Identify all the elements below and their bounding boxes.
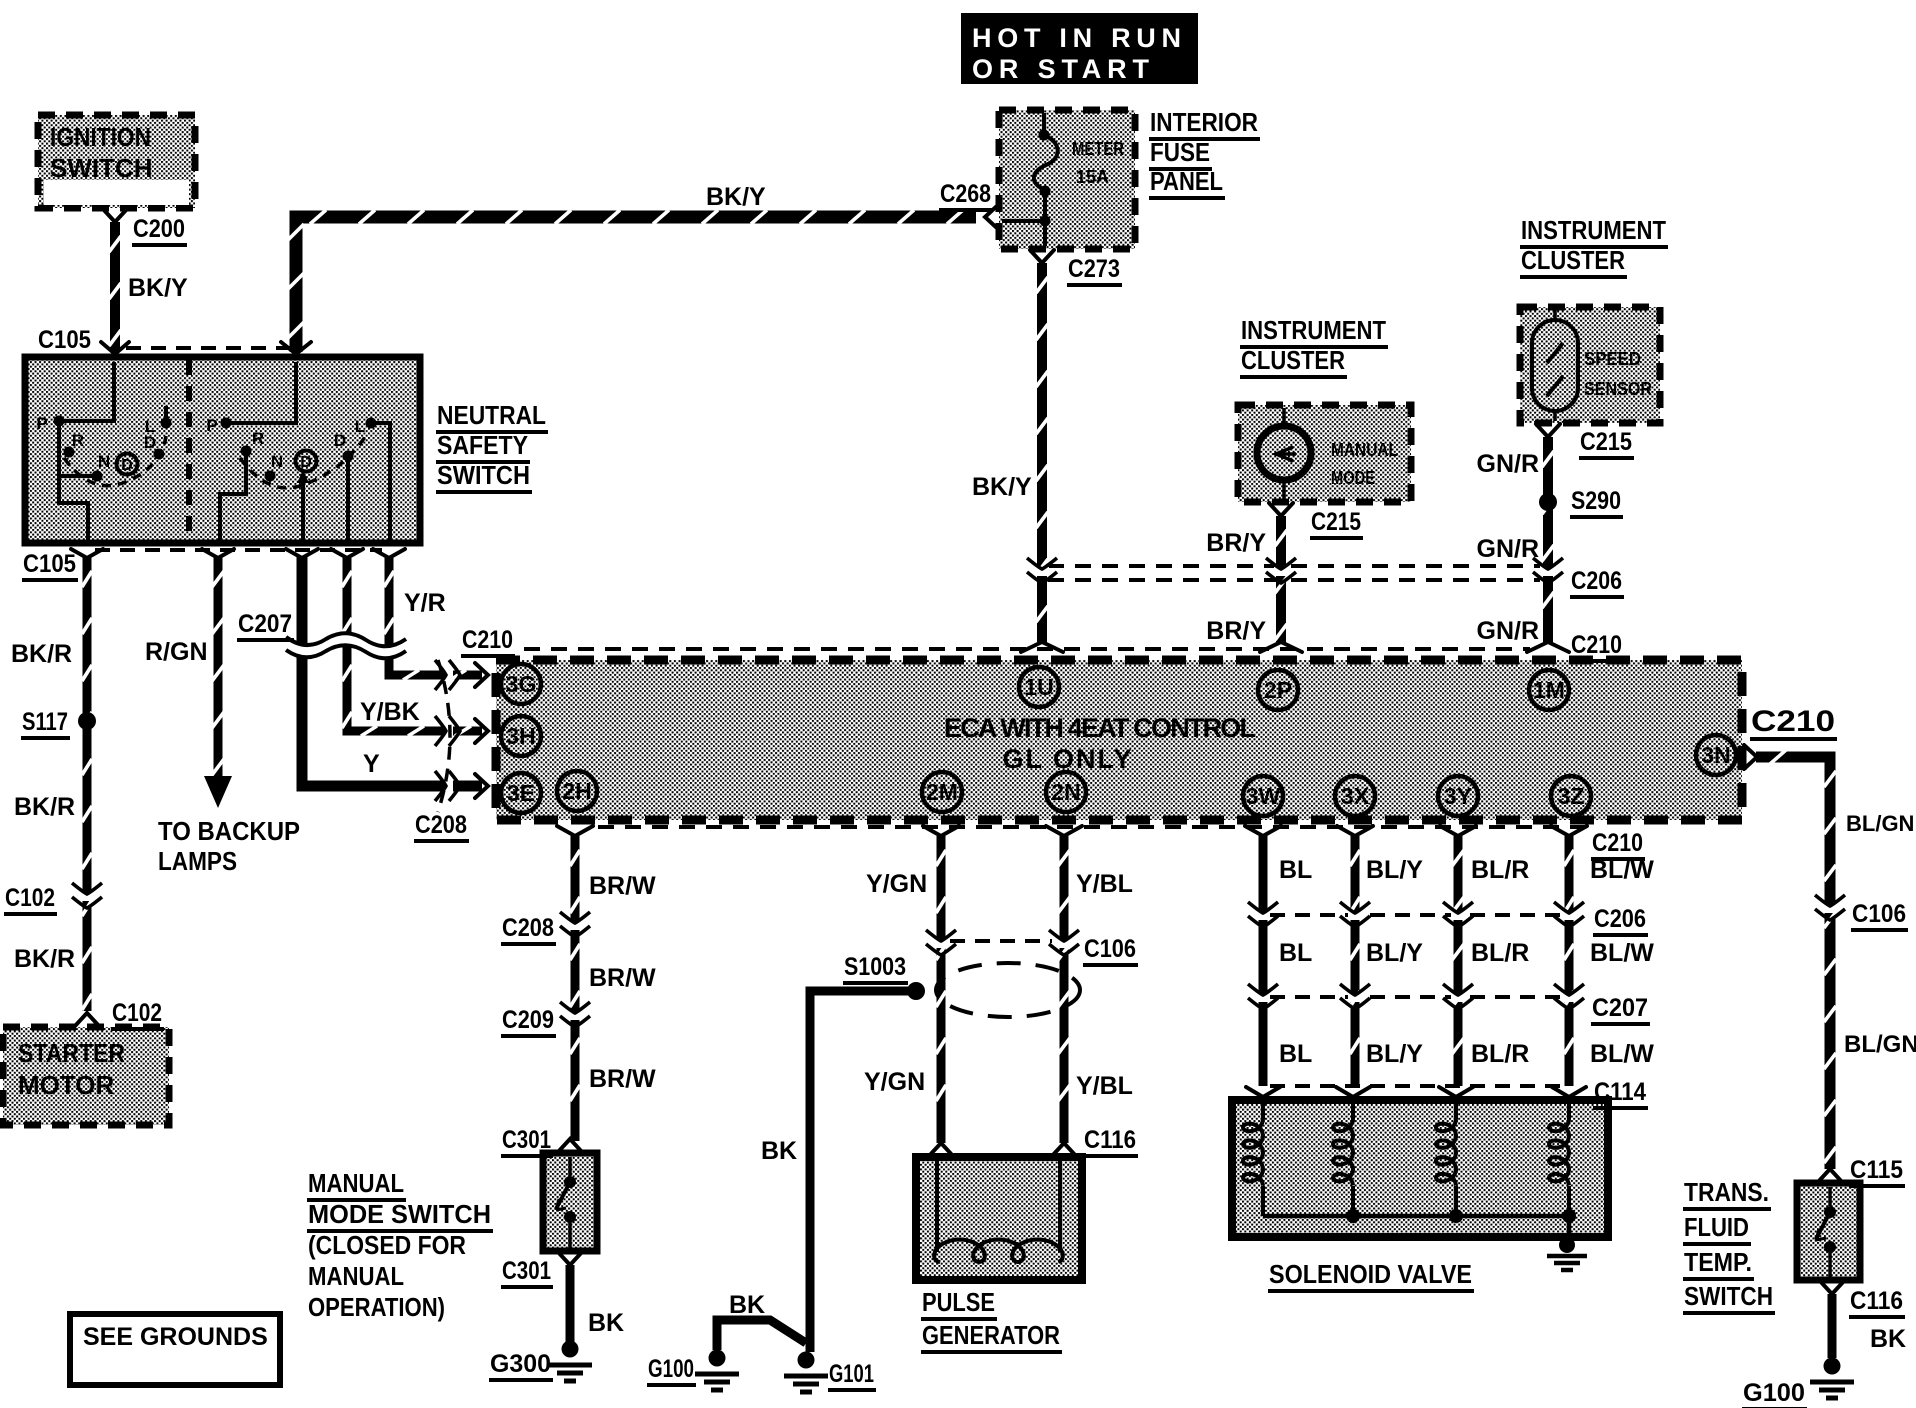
label GN/R 3 <box>1477 617 1540 645</box>
label C210 right top <box>1750 705 1837 739</box>
break C206 on BL/W <box>1562 911 1576 920</box>
break C206 on BL/R <box>1451 911 1465 920</box>
label C208 brw <box>501 914 556 944</box>
label BK manual switch <box>588 1309 624 1337</box>
svg-text:IGNITION: IGNITION <box>50 122 151 152</box>
label C215 right <box>1579 428 1634 458</box>
svg-text:PULSE: PULSE <box>922 1287 995 1317</box>
connector solenoid top <box>1336 1087 1370 1097</box>
label S117 <box>21 708 70 738</box>
svg-text:C273: C273 <box>1068 255 1120 283</box>
ECA with 4EAT control module <box>496 660 1742 820</box>
svg-text:BK: BK <box>761 1137 797 1165</box>
label BR/W 1 <box>589 872 656 900</box>
label CLUSTER left <box>1240 345 1347 377</box>
svg-text:BR/W: BR/W <box>589 1065 656 1093</box>
interior fuse panel <box>999 110 1135 249</box>
svg-text:C102: C102 <box>5 884 55 912</box>
svg-text:C207: C207 <box>238 610 292 638</box>
label MANUAL 2 <box>308 1261 404 1291</box>
svg-text:G101: G101 <box>829 1360 874 1388</box>
svg-text:C210: C210 <box>462 626 513 654</box>
connector C273 <box>1030 250 1054 263</box>
connector NSS bottom pin <box>71 549 103 558</box>
svg-text:P: P <box>206 416 217 435</box>
svg-text:INSTRUMENT: INSTRUMENT <box>1521 215 1666 245</box>
label BL/R r2 <box>1471 1040 1529 1068</box>
label BK/Y 2 <box>706 183 766 211</box>
connector solenoid top <box>1246 1087 1280 1097</box>
connector ECA bottom <box>1245 826 1281 836</box>
break C207 on BL/Y <box>1348 993 1362 1002</box>
label C207 left <box>237 610 294 640</box>
wire BK/Y NSS to fuse panel <box>288 210 976 352</box>
connector ECA left 3H <box>475 719 488 743</box>
ignition switch box <box>38 115 195 208</box>
label SOLENOID VALVE <box>1268 1259 1474 1291</box>
wire BK manual mode switch to ground G300 <box>566 1265 575 1342</box>
connector C215 speed sensor <box>1536 424 1560 437</box>
svg-text:3Z: 3Z <box>1558 783 1585 809</box>
svg-text:BL/W: BL/W <box>1590 1040 1654 1068</box>
label C206 sol <box>1593 905 1648 935</box>
svg-text:HOT IN RUN: HOT IN RUN <box>972 23 1181 53</box>
label C210 under GN/R <box>1570 631 1624 661</box>
break on Y at ECA <box>444 779 453 793</box>
ground G300 <box>562 1341 579 1358</box>
svg-text:C105: C105 <box>23 550 76 578</box>
svg-text:SWITCH: SWITCH <box>50 153 153 183</box>
svg-text:FUSE: FUSE <box>1150 137 1210 167</box>
connector NSS top left <box>101 342 129 354</box>
svg-text:C207: C207 <box>1592 994 1648 1022</box>
label INTERIOR <box>1149 107 1260 139</box>
connector C200 <box>103 209 127 222</box>
label LAMPS <box>158 846 237 876</box>
label MODE SWITCH <box>307 1199 493 1231</box>
label BR/Y 2 <box>1206 617 1266 645</box>
break C207 on BL <box>1256 993 1270 1002</box>
svg-text:TRANS.: TRANS. <box>1684 1177 1769 1207</box>
connector C301 top <box>558 1139 582 1152</box>
ECA pin 1M <box>1529 670 1569 710</box>
wire Y NSS to ECA 3E <box>302 557 482 786</box>
ECA pin 3G <box>501 664 541 704</box>
svg-text:C208: C208 <box>415 811 467 839</box>
svg-text:D: D <box>121 457 133 474</box>
svg-text:BK/R: BK/R <box>14 945 75 973</box>
connector line C210 bottom row <box>598 825 1585 829</box>
connector line C206 double row <box>1048 564 1540 568</box>
svg-text:BL/Y: BL/Y <box>1366 1040 1423 1068</box>
svg-text:SWITCH: SWITCH <box>437 460 530 490</box>
label CLOSED FOR <box>308 1230 466 1260</box>
wire Y/BK NSS to ECA 3H <box>342 557 482 736</box>
backup lamps arrowhead <box>204 776 232 808</box>
svg-text:NEUTRAL: NEUTRAL <box>437 400 546 430</box>
label Y/GN 1 <box>866 870 927 898</box>
svg-text:C210: C210 <box>1571 631 1622 659</box>
label C102 upper <box>4 884 57 914</box>
svg-text:BR/Y: BR/Y <box>1206 617 1266 645</box>
connector ECA bottom <box>1440 826 1476 836</box>
break C209 on BR/W <box>568 1011 582 1020</box>
label INSTRUMENT right <box>1520 215 1668 247</box>
connector ECA top 1M <box>1527 642 1569 652</box>
label C106 mid <box>1083 935 1138 965</box>
connector ECA top 2P <box>1260 642 1302 652</box>
svg-text:MANUAL: MANUAL <box>308 1168 404 1198</box>
label BK/R 2 <box>14 793 75 821</box>
label G300 <box>489 1350 553 1380</box>
svg-text:GN/R: GN/R <box>1477 450 1540 478</box>
instrument cluster speed sensor <box>1520 307 1660 423</box>
svg-text:BL/GN: BL/GN <box>1844 1031 1916 1058</box>
svg-text:(CLOSED FOR: (CLOSED FOR <box>308 1230 466 1260</box>
manual mode switch <box>543 1153 597 1251</box>
svg-text:Y/BL: Y/BL <box>1076 1072 1133 1100</box>
connector ECA bottom <box>923 826 959 836</box>
ECA pin 2P <box>1258 670 1298 710</box>
label C106 right <box>1851 900 1908 930</box>
label TEMP. <box>1683 1247 1754 1279</box>
wire BL/GN ECA 3N to temp switch <box>1756 750 1836 1169</box>
wire BR/Y manual mode to ECA 2P <box>1275 516 1287 642</box>
svg-text:R: R <box>252 429 264 448</box>
connector ECA left 3G <box>475 663 488 687</box>
svg-text:C105: C105 <box>38 326 91 354</box>
solenoid valve <box>1232 1100 1608 1237</box>
connector arc at ECA left <box>438 660 450 812</box>
svg-text:BL: BL <box>1279 1040 1312 1068</box>
label Y <box>363 750 380 778</box>
svg-text:G300: G300 <box>490 1350 551 1378</box>
label BL/W r1 <box>1590 939 1654 967</box>
ECA pin 3Z <box>1551 776 1591 816</box>
label C114 sol <box>1593 1078 1648 1108</box>
label C115 <box>1849 1156 1905 1186</box>
svg-text:BL/GN: BL/GN <box>1846 811 1914 836</box>
svg-text:C206: C206 <box>1594 905 1646 933</box>
wire BK/Y ignition to NSS <box>109 222 121 352</box>
label Y/BL 1 <box>1076 870 1133 898</box>
connector ECA bottom <box>557 826 593 836</box>
label BL/Y r1 <box>1366 939 1423 967</box>
label BR/W 2 <box>589 964 656 992</box>
connector ECA bottom <box>1046 826 1082 836</box>
connector line C114 solenoid row <box>1270 1084 1562 1088</box>
label BK/R 1 <box>11 640 72 668</box>
break C206 on BL/Y <box>1348 911 1362 920</box>
splice S1003 <box>907 982 925 1000</box>
svg-text:SWITCH: SWITCH <box>1684 1281 1773 1311</box>
svg-text:SPEED: SPEED <box>1584 349 1641 369</box>
svg-text:BL/Y: BL/Y <box>1366 856 1423 884</box>
svg-text:C106: C106 <box>1852 900 1906 928</box>
svg-text:C208: C208 <box>502 914 554 942</box>
label MANUAL 1 <box>307 1168 406 1200</box>
svg-text:SOLENOID VALVE: SOLENOID VALVE <box>1269 1259 1472 1289</box>
svg-text:G100: G100 <box>1743 1379 1805 1407</box>
label G100 right <box>1742 1379 1807 1408</box>
svg-text:L: L <box>355 417 365 436</box>
svg-text:GENERATOR: GENERATOR <box>922 1320 1060 1350</box>
svg-text:GN/R: GN/R <box>1477 535 1540 563</box>
svg-text:BK: BK <box>729 1291 765 1319</box>
svg-text:3N: 3N <box>1701 742 1730 768</box>
svg-text:R/GN: R/GN <box>145 638 208 666</box>
svg-text:1M: 1M <box>1533 677 1565 703</box>
label Y/BL 2 <box>1076 1072 1133 1100</box>
label BK/Y 3 <box>972 473 1032 501</box>
svg-text:MANUAL: MANUAL <box>1331 440 1398 460</box>
break C102 on BK/R <box>80 892 94 901</box>
label BL/W r2 <box>1590 1040 1654 1068</box>
connector NSS bottom pin <box>202 549 234 558</box>
connector NSS bottom pin <box>286 549 318 558</box>
ECA pin 3H <box>501 716 541 756</box>
svg-text:S290: S290 <box>1571 487 1621 515</box>
ECA pin 3E <box>501 773 541 813</box>
svg-text:BK: BK <box>588 1309 624 1337</box>
label C105 top <box>37 326 93 356</box>
see grounds note box <box>70 1314 280 1385</box>
svg-text:2H: 2H <box>562 778 591 804</box>
label BL r2 <box>1279 1040 1312 1068</box>
svg-text:N: N <box>98 452 110 471</box>
break C206 on BK/Y <box>1035 567 1049 576</box>
label C209 brw <box>501 1006 556 1036</box>
connector line C206 solenoid row <box>1270 913 1562 917</box>
svg-text:R: R <box>72 431 84 450</box>
break C206 on BR/Y <box>1274 567 1288 576</box>
break C106 on Y/BL <box>1057 939 1071 948</box>
svg-text:STARTER: STARTER <box>18 1038 125 1068</box>
svg-text:GN/R: GN/R <box>1477 617 1540 645</box>
label C116 mid <box>1083 1126 1138 1156</box>
svg-text:BL/R: BL/R <box>1471 939 1529 967</box>
connector C215 manual mode <box>1269 503 1293 516</box>
solenoid ground <box>1559 1237 1575 1253</box>
shield around pulse generator wires <box>936 963 1080 1017</box>
connector starter motor <box>75 1013 99 1026</box>
svg-text:C268: C268 <box>940 180 991 208</box>
svg-text:2M: 2M <box>926 779 958 805</box>
label C273 <box>1067 255 1122 285</box>
wire BL/Y ECA 3X to solenoid valve <box>1350 836 1360 1086</box>
connector C268 <box>985 205 998 229</box>
label C206 row <box>1570 567 1624 597</box>
connector C301 bottom <box>558 1252 582 1265</box>
svg-text:D: D <box>300 454 312 471</box>
label TO BACKUP <box>158 816 300 846</box>
connector ECA top 1U <box>1021 642 1063 652</box>
label C301 upper <box>501 1126 553 1156</box>
svg-text:3G: 3G <box>506 671 537 697</box>
svg-text:C215: C215 <box>1311 508 1361 536</box>
wire BK/R NSS to starter motor <box>82 557 92 1011</box>
splice S117 <box>78 712 96 730</box>
connector solenoid top <box>1552 1087 1586 1097</box>
ECA pin 2H <box>557 771 597 811</box>
svg-text:SENSOR: SENSOR <box>1584 379 1652 399</box>
svg-text:C301: C301 <box>502 1126 551 1154</box>
label BL/W r0 <box>1590 856 1654 884</box>
label BK/Y 1 <box>128 274 188 302</box>
wire BL/W ECA 3Z to solenoid valve <box>1564 836 1574 1086</box>
connector line C210 top row <box>524 647 1530 651</box>
label BL/Y r0 <box>1366 856 1423 884</box>
label PANEL <box>1149 166 1225 198</box>
ECA pin 3Y <box>1438 776 1478 816</box>
ground G100 right <box>1824 1358 1841 1375</box>
label C200 <box>132 215 187 245</box>
svg-text:C114: C114 <box>1594 1078 1646 1106</box>
svg-text:3X: 3X <box>1341 783 1370 809</box>
label BK s1003 <box>761 1137 797 1165</box>
svg-text:BK/Y: BK/Y <box>972 473 1032 501</box>
connector NSS top right <box>281 342 311 354</box>
label GN/R 2 <box>1477 535 1540 563</box>
svg-text:C210: C210 <box>1751 705 1835 738</box>
svg-text:MOTOR: MOTOR <box>18 1070 115 1100</box>
label BL/Y r2 <box>1366 1040 1423 1068</box>
splice S290 <box>1539 493 1557 511</box>
svg-text:BL: BL <box>1279 856 1312 884</box>
connector ECA bottom <box>1337 826 1373 836</box>
svg-text:CLUSTER: CLUSTER <box>1241 345 1345 375</box>
label BL/GN 1 <box>1846 811 1914 836</box>
svg-text:Y/BL: Y/BL <box>1076 870 1133 898</box>
connector solenoid top <box>1439 1087 1473 1097</box>
svg-text:BL/Y: BL/Y <box>1366 939 1423 967</box>
label CLUSTER right <box>1520 245 1627 277</box>
svg-text:LAMPS: LAMPS <box>158 846 237 876</box>
break C206 on GN/R <box>1541 567 1555 576</box>
svg-text:MODE: MODE <box>1331 468 1375 488</box>
break C207 on BL/R <box>1451 993 1465 1002</box>
label NEUTRAL SAFETY SWITCH line1 <box>436 400 548 432</box>
svg-text:C200: C200 <box>133 215 185 243</box>
svg-text:D: D <box>334 431 346 450</box>
svg-text:METER: METER <box>1072 139 1124 159</box>
label S1003 <box>843 953 908 983</box>
label BL r0 <box>1279 856 1312 884</box>
ground G100 left <box>709 1350 726 1367</box>
svg-text:INSTRUMENT: INSTRUMENT <box>1241 315 1386 345</box>
label C105 bottom <box>22 550 78 580</box>
wire BL ECA 3W to solenoid valve <box>1259 836 1268 1086</box>
wire BR/W ECA 2H to manual mode switch <box>570 836 580 1141</box>
neutral safety switch <box>25 357 420 543</box>
break C207 on BL/W <box>1562 993 1576 1002</box>
label G100 left <box>647 1355 696 1385</box>
svg-text:2P: 2P <box>1264 677 1292 703</box>
svg-text:Y/R: Y/R <box>404 589 446 617</box>
svg-text:1U: 1U <box>1024 674 1053 700</box>
label PULSE <box>921 1287 997 1319</box>
wire Y/BL ECA 2N to pulse generator <box>1058 836 1070 1143</box>
label G101 <box>828 1360 876 1390</box>
svg-text:3W: 3W <box>1246 783 1281 809</box>
starter motor box <box>3 1027 169 1125</box>
svg-text:PANEL: PANEL <box>1150 166 1223 196</box>
label INSTRUMENT left <box>1240 315 1388 347</box>
connector line C105 top <box>126 346 290 350</box>
svg-text:BK/R: BK/R <box>14 793 75 821</box>
break C106 on Y/GN <box>934 939 948 948</box>
label BR/Y 1 <box>1206 529 1266 557</box>
label C268 <box>939 180 993 210</box>
svg-text:BK/Y: BK/Y <box>128 274 188 302</box>
label C116 right <box>1849 1287 1905 1317</box>
label BR/W 3 <box>589 1065 656 1093</box>
label FLUID <box>1683 1212 1751 1244</box>
label GN/R 1 <box>1477 450 1540 478</box>
ECA pin 1U <box>1019 667 1059 707</box>
svg-text:C206: C206 <box>1571 567 1622 595</box>
svg-text:C301: C301 <box>502 1257 551 1285</box>
svg-text:3E: 3E <box>507 780 535 806</box>
connector line C207 solenoid row <box>1270 995 1562 999</box>
svg-text:C209: C209 <box>502 1006 554 1034</box>
svg-text:C116: C116 <box>1084 1126 1136 1154</box>
svg-text:P: P <box>36 414 47 433</box>
svg-text:Y/BK: Y/BK <box>360 698 420 726</box>
svg-text:C215: C215 <box>1580 428 1632 456</box>
break C206 on BL <box>1256 911 1270 920</box>
svg-text:C102: C102 <box>112 999 162 1027</box>
wire BL/R ECA 3Y to solenoid valve <box>1452 836 1464 1086</box>
svg-text:C116: C116 <box>1850 1287 1903 1315</box>
svg-text:15A: 15A <box>1076 167 1109 187</box>
wire BK temp switch to ground G100 <box>1828 1294 1837 1358</box>
label C210 top left <box>461 626 515 656</box>
connector NSS bottom pin <box>373 549 405 558</box>
wire R/GN to backup lamps <box>212 557 224 778</box>
svg-text:3Y: 3Y <box>1444 783 1472 809</box>
break C208 on BR/W <box>568 921 582 930</box>
label C208 left <box>414 811 469 841</box>
connector NSS bottom pin <box>331 549 363 558</box>
label TRANS. <box>1683 1177 1771 1209</box>
label FUSE <box>1149 137 1212 169</box>
svg-text:SAFETY: SAFETY <box>437 430 528 460</box>
svg-text:3H: 3H <box>506 723 535 749</box>
svg-text:BR/Y: BR/Y <box>1206 529 1266 557</box>
label BL r1 <box>1279 939 1312 967</box>
svg-text:BK: BK <box>1870 1325 1906 1353</box>
wire BK/Y fuse panel to ECA 1U <box>1036 263 1048 642</box>
svg-text:S1003: S1003 <box>844 953 906 981</box>
svg-text:BK/Y: BK/Y <box>706 183 766 211</box>
label Y/GN 2 <box>864 1068 925 1096</box>
connector ECA right 3N <box>1744 745 1757 769</box>
svg-text:GL ONLY: GL ONLY <box>1002 744 1133 774</box>
svg-text:BL/R: BL/R <box>1471 856 1529 884</box>
svg-text:BK/R: BK/R <box>11 640 72 668</box>
svg-text:FLUID: FLUID <box>1684 1212 1749 1242</box>
connector ECA left 3E <box>475 774 488 798</box>
trans fluid temp switch <box>1797 1183 1860 1280</box>
svg-text:S117: S117 <box>22 708 68 736</box>
svg-text:G100: G100 <box>648 1355 694 1383</box>
svg-text:ECA WITH 4EAT CONTROL: ECA WITH 4EAT CONTROL <box>944 713 1256 743</box>
label R/GN <box>145 638 208 666</box>
svg-text:C210: C210 <box>1592 829 1643 857</box>
break on Y/R at ECA <box>444 668 453 682</box>
connector pulse generator left <box>929 1143 953 1156</box>
